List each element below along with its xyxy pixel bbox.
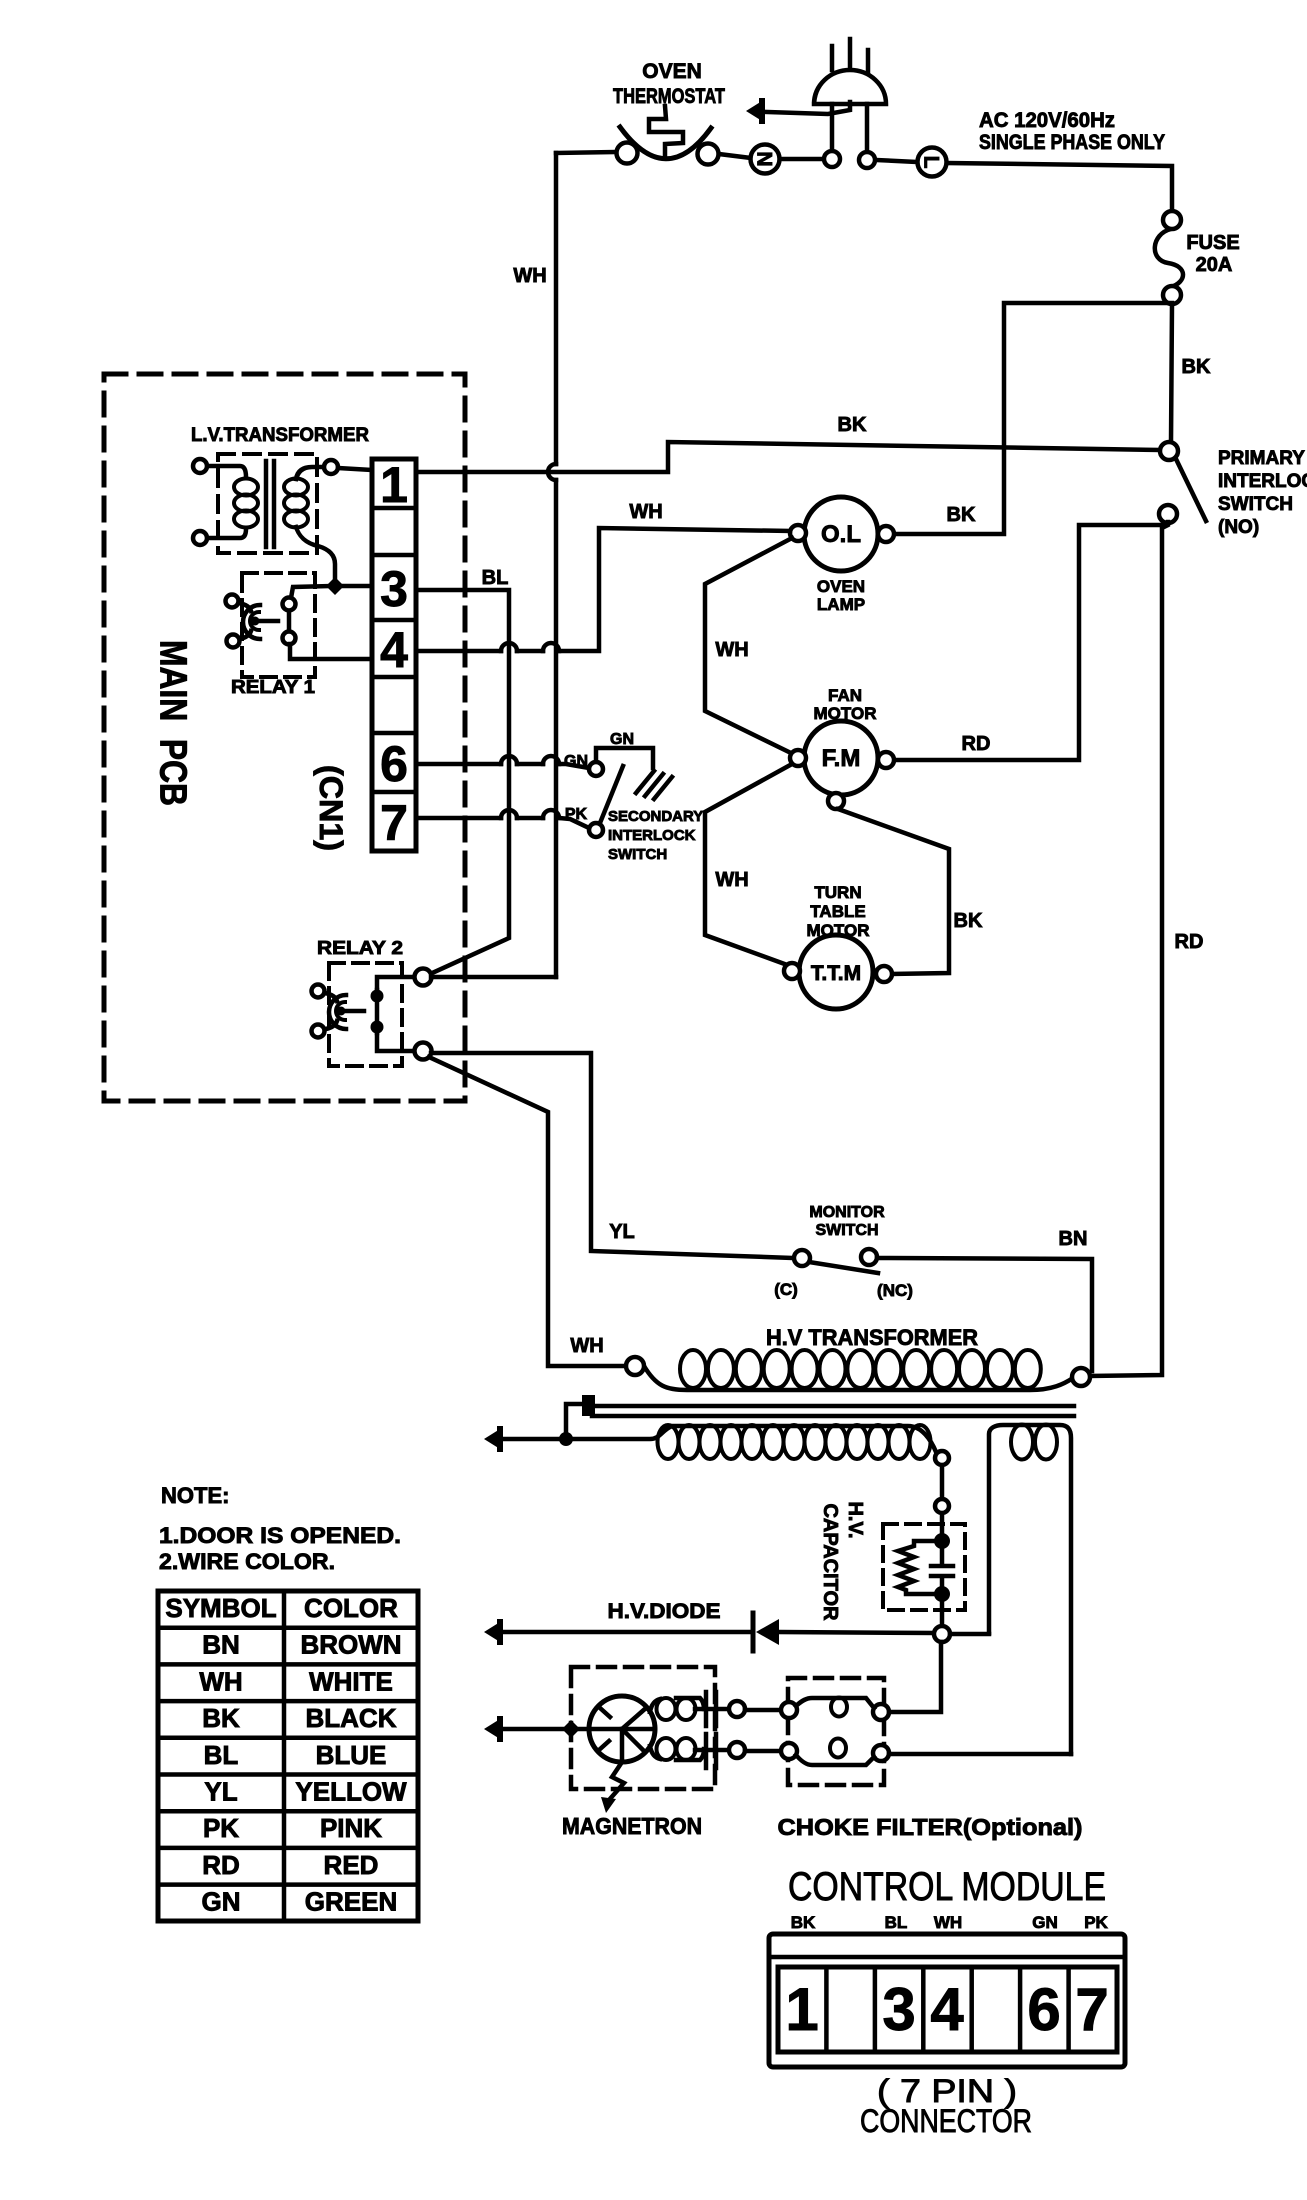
svg-text:RD: RD: [202, 1850, 240, 1880]
wire WH fan motor to turn table motor: [705, 764, 792, 966]
choke filter: [788, 1678, 884, 1785]
wire BK fuse to primary interlock switch: [1171, 304, 1172, 442]
svg-text:3: 3: [882, 1976, 915, 2043]
wire choke filter to filament winding: [889, 1752, 1071, 1757]
wire secondary to H.V capacitor: [940, 1465, 945, 1534]
svg-text:SINGLE PHASE ONLY: SINGLE PHASE ONLY: [979, 131, 1165, 154]
svg-text:COLOR: COLOR: [304, 1593, 398, 1623]
svg-text:H.V.: H.V.: [844, 1501, 866, 1538]
svg-text:H.V TRANSFORMER: H.V TRANSFORMER: [766, 1325, 978, 1350]
svg-text:BK: BK: [202, 1703, 240, 1733]
svg-text:AC 120V/60Hz: AC 120V/60Hz: [979, 109, 1115, 132]
svg-text:SECONDARY: SECONDARY: [608, 808, 703, 825]
svg-text:PRIMARY: PRIMARY: [1218, 448, 1305, 469]
wire BK fan motor to turn table motor: [838, 809, 949, 974]
wire BK from CN1 pin 1 to primary interlock switch: [416, 442, 1159, 472]
svg-text:BK: BK: [947, 504, 976, 526]
svg-text:THERMOSTAT: THERMOSTAT: [613, 85, 725, 108]
svg-text:RED: RED: [324, 1850, 379, 1880]
svg-text:WH: WH: [199, 1666, 242, 1696]
svg-text:MONITOR: MONITOR: [809, 1204, 885, 1221]
wire BN monitor switch to H.V transformer: [877, 1258, 1092, 1371]
svg-text:INTERLOCK: INTERLOCK: [1218, 471, 1307, 492]
svg-text:GN: GN: [202, 1887, 241, 1917]
svg-text:OVEN: OVEN: [642, 60, 702, 83]
svg-text:RELAY 2: RELAY 2: [317, 938, 403, 958]
wire AC top line: [556, 152, 1172, 211]
svg-text:2.WIRE COLOR.: 2.WIRE COLOR.: [159, 1549, 335, 1574]
connector CN1: [372, 459, 416, 851]
svg-text:BLUE: BLUE: [316, 1740, 387, 1770]
svg-text:WH: WH: [513, 265, 546, 287]
wire relay 1 to CN1 pin 4: [290, 644, 372, 659]
wire junction to relay 1 contact: [291, 586, 330, 598]
fan motor F.M: [804, 721, 878, 795]
svg-text:PK: PK: [1084, 1913, 1108, 1932]
svg-text:1: 1: [785, 1976, 818, 2043]
svg-text:BK: BK: [838, 414, 867, 436]
H.V transformer primary winding: [644, 1366, 1073, 1390]
fuse 20A: [1155, 229, 1183, 287]
svg-text:SYMBOL: SYMBOL: [165, 1593, 276, 1623]
wire color table: [158, 1591, 418, 1921]
live terminal L: [918, 148, 947, 177]
svg-text:1: 1: [380, 457, 408, 513]
H.V capacitor: [883, 1524, 965, 1610]
magnetron: [571, 1667, 715, 1789]
svg-text:H.V.DIODE: H.V.DIODE: [608, 1600, 721, 1623]
svg-text:CONTROL MODULE: CONTROL MODULE: [788, 1865, 1106, 1909]
svg-text:WH: WH: [570, 1335, 603, 1357]
svg-text:7: 7: [1075, 1976, 1108, 2043]
monitor switch: [809, 1262, 878, 1273]
svg-text:SWITCH: SWITCH: [608, 846, 667, 863]
svg-text:FUSE: FUSE: [1186, 232, 1239, 254]
svg-text:RD: RD: [962, 733, 991, 755]
ground symbol at secondary interlock: [636, 771, 672, 799]
svg-text:(NC): (NC): [877, 1281, 913, 1300]
oven lamp O.L: [804, 497, 878, 571]
wire BL CN1 pin 3 to relay 2: [416, 590, 509, 974]
svg-text:T.T.M: T.T.M: [811, 962, 861, 985]
H.V diode: [500, 1630, 750, 1635]
svg-text:CAPACITOR: CAPACITOR: [819, 1503, 841, 1621]
neutral terminal N: [751, 145, 780, 174]
svg-text:MOTOR: MOTOR: [814, 704, 877, 723]
wire WH relay 2 to H.V transformer: [429, 1057, 627, 1366]
svg-text:SWITCH: SWITCH: [1218, 494, 1293, 515]
svg-text:BL: BL: [204, 1740, 239, 1770]
wire YL relay 2 to monitor switch: [431, 1053, 794, 1258]
svg-text:4: 4: [380, 622, 408, 678]
power plug: [814, 70, 886, 104]
svg-text:WH: WH: [715, 869, 748, 891]
L.V. transformer: [218, 454, 317, 553]
svg-text:WH: WH: [934, 1913, 962, 1932]
svg-text:BN: BN: [202, 1630, 240, 1660]
primary interlock switch (NO): [1176, 459, 1206, 521]
relay 1: [242, 573, 315, 677]
svg-text:LAMP: LAMP: [817, 595, 865, 614]
svg-text:(C): (C): [774, 1280, 798, 1299]
svg-text:BLACK: BLACK: [306, 1703, 397, 1733]
wire GN CN1 pin 6 to secondary interlock switch: [416, 764, 589, 768]
svg-text:6: 6: [1027, 1976, 1060, 2043]
wire junction to CN1 pin 3: [341, 584, 372, 589]
svg-text:MAIN PCB: MAIN PCB: [152, 640, 194, 806]
svg-text:BROWN: BROWN: [300, 1630, 401, 1660]
svg-text:WH: WH: [715, 639, 748, 661]
svg-text:SWITCH: SWITCH: [815, 1222, 878, 1239]
svg-text:4: 4: [930, 1976, 964, 2043]
svg-text:GN: GN: [1032, 1913, 1058, 1932]
svg-text:F.M: F.M: [822, 745, 861, 772]
wire choke filter to H.V diode node: [889, 1642, 941, 1712]
svg-text:PK: PK: [203, 1813, 239, 1843]
svg-text:TURN: TURN: [814, 883, 861, 902]
svg-text:(CN1): (CN1): [313, 765, 349, 851]
H.V transformer filament winding: [989, 1425, 1071, 1754]
svg-text:N: N: [753, 151, 776, 166]
chassis ground at transformer core: [500, 1404, 583, 1439]
svg-text:CONNECTOR: CONNECTOR: [860, 2103, 1032, 2139]
svg-text:YL: YL: [204, 1777, 237, 1807]
svg-text:MOTOR: MOTOR: [807, 921, 870, 940]
svg-text:RELAY 1: RELAY 1: [231, 677, 315, 697]
svg-text:YL: YL: [609, 1221, 635, 1243]
H.V transformer core: [592, 1406, 1074, 1416]
svg-text:OVEN: OVEN: [817, 577, 865, 596]
svg-text:FAN: FAN: [828, 686, 862, 705]
svg-text:6: 6: [380, 736, 408, 792]
wire WH left vertical from oven thermostat down to relay 2 (with hop over pin-1 wire): [554, 153, 559, 977]
wire from fuse to oven lamp right terminal: [894, 303, 1172, 534]
secondary interlock switch: [600, 766, 623, 823]
svg-text:TABLE: TABLE: [810, 902, 865, 921]
svg-text:WH: WH: [629, 501, 662, 523]
wire transformer to CN1 pin 1: [338, 468, 372, 470]
svg-text:BL: BL: [885, 1913, 908, 1932]
svg-text:WHITE: WHITE: [309, 1666, 393, 1696]
svg-text:BK: BK: [1182, 356, 1211, 378]
svg-text:YELLOW: YELLOW: [295, 1777, 407, 1807]
H.V transformer secondary winding: [573, 1426, 936, 1452]
svg-text:3: 3: [380, 561, 408, 617]
svg-text:CHOKE FILTER(Optional): CHOKE FILTER(Optional): [778, 1814, 1083, 1840]
svg-text:GN: GN: [610, 731, 634, 748]
turn table motor T.T.M: [799, 935, 873, 1009]
svg-text:PINK: PINK: [320, 1813, 382, 1843]
svg-text:RD: RD: [1175, 931, 1204, 953]
svg-text:1.DOOR IS OPENED.: 1.DOOR IS OPENED.: [159, 1523, 401, 1548]
main PCB dashed box: [104, 374, 465, 1101]
svg-text:O.L: O.L: [821, 521, 861, 548]
svg-text:NOTE:: NOTE:: [161, 1483, 229, 1508]
svg-text:INTERLOCK: INTERLOCK: [608, 827, 696, 844]
svg-text:GN: GN: [564, 753, 588, 770]
svg-text:(NO): (NO): [1218, 517, 1259, 538]
junction node at relay 1: [326, 577, 344, 595]
wire WH oven lamp to fan motor: [705, 538, 792, 753]
svg-text:MAGNETRON: MAGNETRON: [562, 1813, 702, 1839]
wire RD primary interlock to fan motor: [894, 525, 1166, 760]
svg-text:L: L: [920, 156, 943, 169]
svg-text:BK: BK: [954, 910, 983, 932]
svg-text:20A: 20A: [1196, 254, 1233, 276]
svg-text:7: 7: [380, 795, 408, 851]
svg-text:BK: BK: [791, 1913, 816, 1932]
svg-text:GREEN: GREEN: [305, 1887, 397, 1917]
wire PK CN1 pin 7 to secondary interlock switch: [416, 818, 589, 828]
oven thermostat: [620, 127, 711, 159]
svg-text:BL: BL: [482, 567, 509, 589]
svg-text:PK: PK: [565, 806, 588, 823]
wire WH CN1 pin4 to oven lamp: [416, 528, 790, 651]
relay 2: [329, 963, 402, 1066]
svg-text:L.V.TRANSFORMER: L.V.TRANSFORMER: [191, 425, 369, 446]
svg-text:BN: BN: [1059, 1228, 1088, 1250]
wire RD primary interlock down to H.V transformer right terminal: [1090, 522, 1168, 1376]
chassis ground arrow at plug: [746, 101, 762, 121]
wire relay 2 top to WH line: [431, 975, 556, 980]
